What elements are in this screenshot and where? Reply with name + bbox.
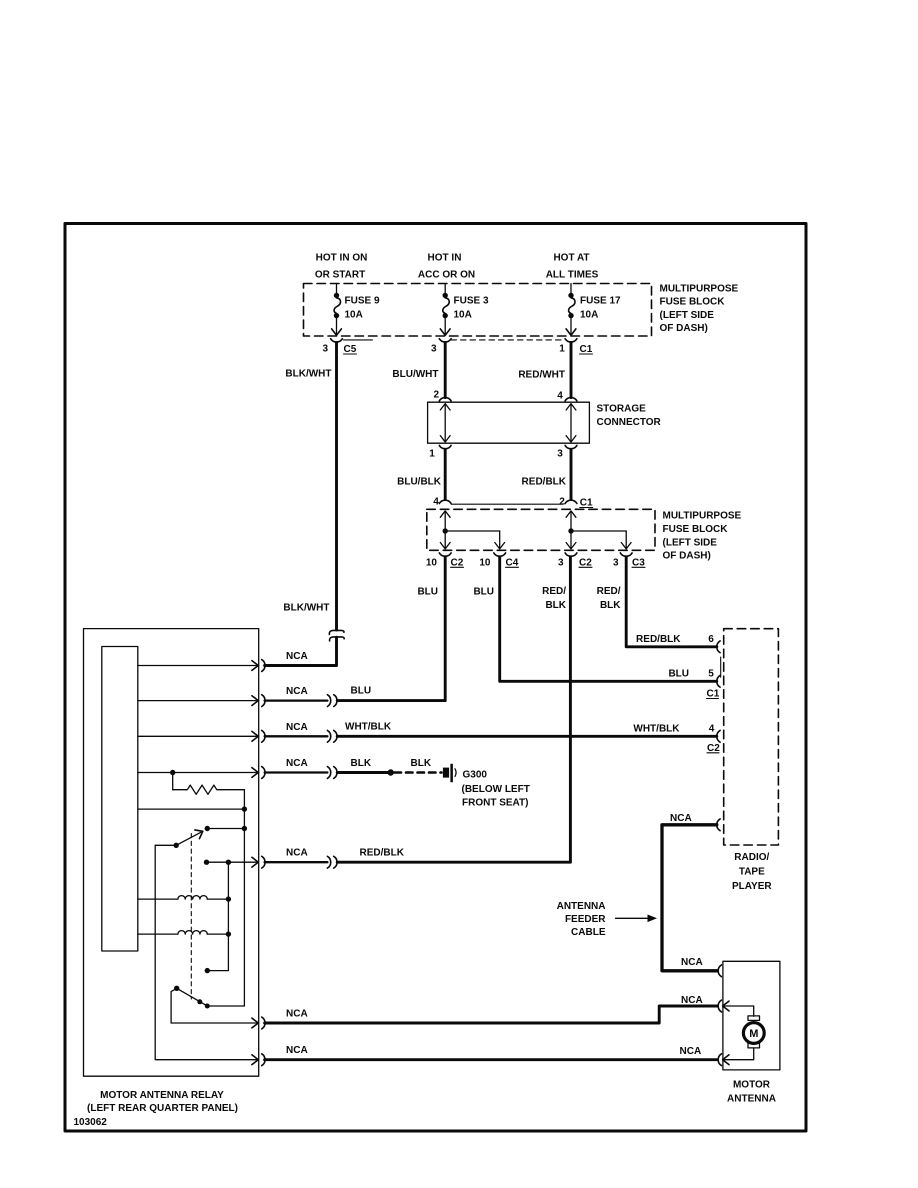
fuse F17 bbox=[566, 284, 576, 336]
svg-text:CABLE: CABLE bbox=[571, 927, 606, 938]
svg-text:CONNECTOR: CONNECTOR bbox=[597, 417, 662, 428]
svg-text:NCA: NCA bbox=[286, 848, 308, 859]
connector cup radio pin 6 bbox=[717, 641, 720, 653]
wire NCA stub row 3 bbox=[265, 735, 328, 737]
wire NCA row 7 to motor bbox=[265, 1058, 718, 1061]
svg-text:FUSE 9: FUSE 9 bbox=[345, 296, 380, 307]
svg-text:BLU/WHT: BLU/WHT bbox=[392, 369, 438, 380]
svg-text:10A: 10A bbox=[345, 310, 363, 321]
svg-text:10A: 10A bbox=[580, 310, 598, 321]
svg-text:M: M bbox=[749, 1028, 758, 1040]
relay wire row 1 internal bbox=[138, 661, 258, 671]
svg-text:HOT AT: HOT AT bbox=[553, 253, 589, 264]
switch 2 pivot dot bbox=[174, 986, 179, 991]
svg-text:BLU: BLU bbox=[473, 587, 494, 598]
wire NCA stub row 5 bbox=[265, 861, 328, 863]
ground G300 symbol bbox=[443, 764, 456, 782]
wire from row4 dot down to resistor bbox=[172, 773, 174, 790]
label RED/BLK wire 2 bbox=[597, 586, 622, 611]
svg-text:NCA: NCA bbox=[286, 1009, 308, 1020]
coil bus terminal dot bbox=[205, 968, 210, 973]
wire RED/WHT bbox=[570, 343, 573, 398]
wire BLK/WHT upper vertical bbox=[335, 343, 338, 631]
wire BLU from pin 10 C2 down to relay row bbox=[337, 557, 445, 700]
in-line connector row 3 bbox=[327, 730, 337, 742]
wire from relay block to resistor bus bbox=[138, 808, 245, 810]
svg-text:FRONT SEAT): FRONT SEAT) bbox=[462, 798, 528, 809]
connector cup storage pin 3 bbox=[565, 445, 577, 448]
wire BLU/WHT bbox=[444, 343, 447, 398]
dashed mechanical link bbox=[190, 834, 192, 1000]
svg-text:BLK: BLK bbox=[411, 758, 432, 769]
svg-text:RED/: RED/ bbox=[542, 586, 566, 597]
switch 2 arm bbox=[177, 988, 206, 1005]
svg-text:C5: C5 bbox=[344, 344, 357, 355]
label C1 bbox=[580, 344, 593, 355]
svg-text:MOTOR: MOTOR bbox=[733, 1080, 771, 1091]
svg-text:OF DASH): OF DASH) bbox=[663, 551, 711, 562]
svg-text:BLK: BLK bbox=[545, 600, 566, 611]
svg-text:4: 4 bbox=[557, 391, 563, 402]
svg-text:ALL TIMES: ALL TIMES bbox=[546, 270, 599, 281]
multipurpose fuse block 1 (dashed box) bbox=[304, 284, 652, 337]
connector face line between pin 4 and pin 2 bbox=[451, 503, 563, 505]
in-line connector row 2 bbox=[327, 695, 337, 707]
svg-text:TAPE: TAPE bbox=[739, 867, 765, 878]
connector cup pin 10 C2 bbox=[439, 553, 451, 556]
connector cup pin 3 C3 bbox=[620, 553, 632, 556]
stub line right of C5 cup bbox=[344, 339, 373, 341]
outer border frame bbox=[65, 224, 806, 1132]
svg-text:NCA: NCA bbox=[680, 1046, 702, 1057]
svg-text:BLK: BLK bbox=[351, 758, 372, 769]
svg-text:C1: C1 bbox=[707, 689, 720, 700]
svg-text:RED/BLK: RED/BLK bbox=[360, 848, 405, 859]
fuse block 2 internal bus BLU side bbox=[440, 511, 504, 549]
label C3 bbox=[632, 557, 645, 568]
wire resistor output down bus bbox=[243, 790, 245, 1006]
storage internal pass-through pin 2-1 bbox=[440, 404, 450, 442]
coil 1 output wire bbox=[207, 898, 228, 900]
svg-text:C2: C2 bbox=[707, 743, 720, 754]
connector cup relay row 4 bbox=[262, 767, 265, 779]
connector cup motor pin 3 bbox=[718, 1054, 721, 1066]
relay wire row 4 internal bbox=[138, 768, 258, 778]
connector cup radio pin 4 bbox=[717, 730, 720, 742]
wire BLK to ground junction bbox=[337, 771, 391, 774]
connector cup C5 under fuse 9 bbox=[331, 339, 343, 342]
junction dot row 5 coil bus bbox=[226, 860, 231, 865]
svg-text:3: 3 bbox=[613, 557, 619, 568]
in-line connector row 5 bbox=[327, 856, 337, 868]
svg-text:WHT/BLK: WHT/BLK bbox=[633, 724, 680, 735]
wire NCA row 1 to BLK/WHT vertical bbox=[265, 637, 337, 665]
svg-text:4: 4 bbox=[709, 724, 715, 735]
label C2 bbox=[451, 557, 464, 568]
svg-text:NCA: NCA bbox=[286, 1045, 308, 1056]
svg-text:RED/: RED/ bbox=[597, 586, 621, 597]
bracket between radio pins 6 and 5 bbox=[720, 657, 722, 677]
wire RED/BLK storage to fuse block bbox=[570, 450, 573, 499]
svg-text:MULTIPURPOSE: MULTIPURPOSE bbox=[660, 284, 739, 295]
svg-text:C4: C4 bbox=[506, 557, 519, 568]
connector cup storage pin 2 bbox=[439, 398, 451, 401]
label C1 (radio) bbox=[707, 689, 720, 700]
svg-text:BLK/WHT: BLK/WHT bbox=[283, 603, 329, 614]
label C1 (fuse block 2 top) bbox=[580, 498, 593, 509]
svg-text:G300: G300 bbox=[463, 770, 488, 781]
relay wire row 5 internal bbox=[207, 857, 259, 867]
motor M symbol bbox=[743, 1016, 764, 1048]
switch 2 contact wire to bus bbox=[207, 1005, 244, 1007]
fuse F9 bbox=[332, 284, 342, 336]
wire NCA row 6 to motor bbox=[265, 1006, 718, 1023]
connector cup storage pin 4 bbox=[565, 398, 577, 401]
junction dot resistor bus upper bbox=[242, 806, 247, 811]
svg-text:(LEFT SIDE: (LEFT SIDE bbox=[663, 538, 718, 549]
junction dot coil 2 bbox=[226, 931, 231, 936]
svg-text:FEEDER: FEEDER bbox=[565, 914, 606, 925]
relay coil 1 feed wire bbox=[138, 898, 178, 900]
antenna feeder cable wire bbox=[662, 825, 717, 971]
svg-text:RED/BLK: RED/BLK bbox=[522, 477, 567, 488]
relay coil 2 feed wire bbox=[138, 933, 178, 935]
label RED/BLK wire 1 bbox=[542, 586, 567, 611]
svg-text:PLAYER: PLAYER bbox=[732, 881, 772, 892]
svg-text:FUSE BLOCK: FUSE BLOCK bbox=[663, 524, 729, 535]
wire NCA stub row 2 bbox=[265, 699, 328, 701]
svg-text:BLU: BLU bbox=[668, 669, 689, 680]
resistor (relay coil resistor) bbox=[173, 785, 245, 794]
switch 2 arm dot a bbox=[197, 999, 202, 1004]
svg-text:NCA: NCA bbox=[286, 722, 308, 733]
svg-text:2: 2 bbox=[559, 497, 565, 508]
relay internal block rectangle bbox=[102, 647, 138, 952]
connector cup C1 under fuse 17 bbox=[565, 339, 577, 342]
svg-text:C2: C2 bbox=[579, 557, 592, 568]
radio/tape player box (dashed) bbox=[724, 629, 779, 845]
svg-text:STORAGE: STORAGE bbox=[597, 404, 647, 415]
svg-text:(LEFT SIDE: (LEFT SIDE bbox=[660, 310, 715, 321]
arrow into motor pin 3 bbox=[723, 1048, 754, 1065]
relay wire row 3 internal bbox=[138, 731, 258, 741]
relay wire row 2 internal bbox=[138, 696, 258, 706]
svg-text:ACC OR ON: ACC OR ON bbox=[418, 270, 475, 281]
connector cup radio pin 5 bbox=[717, 675, 720, 687]
wire switch 2 pivot down to NCA row 6 bbox=[171, 988, 258, 1028]
svg-text:BLK: BLK bbox=[600, 600, 621, 611]
wire RED/BLK from pin 3 C3 to radio pin 6 bbox=[626, 557, 717, 647]
svg-text:BLK/WHT: BLK/WHT bbox=[285, 369, 331, 380]
coil 2 output wire bbox=[207, 933, 228, 935]
coil bus vertical bbox=[207, 862, 228, 970]
svg-text:FUSE BLOCK: FUSE BLOCK bbox=[660, 297, 726, 308]
arrow antenna feeder cable bbox=[616, 915, 658, 923]
svg-text:103062: 103062 bbox=[74, 1117, 108, 1128]
connector cup radio NCA pin bbox=[717, 819, 720, 831]
svg-text:NCA: NCA bbox=[681, 995, 703, 1006]
wire left bus down to NCA row 7 bbox=[155, 845, 258, 1064]
connector cup storage pin 1 bbox=[439, 445, 451, 448]
storage connector box bbox=[428, 402, 590, 443]
relay common contact dot row 5 bbox=[204, 860, 209, 865]
connector cup fuse block 2 pin 2 bbox=[565, 500, 577, 503]
multipurpose fuse block 2 (dashed box) bbox=[427, 509, 655, 550]
wire NCA stub row 4 bbox=[265, 771, 328, 773]
svg-text:3: 3 bbox=[322, 344, 328, 355]
svg-text:C2: C2 bbox=[451, 557, 464, 568]
wire BLU from pin 10 C4 to radio pin 5 bbox=[500, 557, 717, 681]
dashed connector C1 face line bbox=[451, 339, 565, 341]
storage internal pass-through pin 4-3 bbox=[566, 404, 576, 442]
svg-text:NCA: NCA bbox=[286, 651, 308, 662]
dashed wire BLK to G300 bbox=[395, 771, 442, 774]
svg-text:10A: 10A bbox=[454, 310, 472, 321]
svg-text:10: 10 bbox=[479, 557, 491, 568]
svg-text:NCA: NCA bbox=[681, 957, 703, 968]
connector cup relay row 6 bbox=[262, 1017, 265, 1029]
svg-text:3: 3 bbox=[431, 344, 437, 355]
svg-text:3: 3 bbox=[557, 449, 563, 460]
wire WHT/BLK main run bbox=[337, 735, 717, 738]
svg-text:(LEFT REAR QUARTER PANEL): (LEFT REAR QUARTER PANEL) bbox=[87, 1103, 238, 1114]
junction dot row 4 bbox=[170, 770, 175, 775]
svg-text:ANTENNA: ANTENNA bbox=[727, 1094, 776, 1105]
motor antenna relay box bbox=[84, 629, 259, 1077]
svg-text:BLU: BLU bbox=[351, 686, 372, 697]
svg-text:HOT IN: HOT IN bbox=[428, 253, 462, 264]
relay coil 1 bbox=[178, 896, 207, 900]
svg-text:C3: C3 bbox=[632, 557, 645, 568]
svg-text:4: 4 bbox=[433, 497, 439, 508]
svg-text:MOTOR ANTENNA RELAY: MOTOR ANTENNA RELAY bbox=[100, 1090, 224, 1101]
svg-text:C1: C1 bbox=[580, 344, 593, 355]
connector cup relay row 3 bbox=[262, 730, 265, 742]
label C5 bbox=[344, 344, 357, 355]
wire switch 1 pivot to left bus bbox=[155, 844, 176, 846]
svg-text:BLU: BLU bbox=[417, 587, 438, 598]
svg-text:1: 1 bbox=[559, 344, 565, 355]
svg-text:RED/WHT: RED/WHT bbox=[518, 370, 565, 381]
svg-text:NCA: NCA bbox=[286, 686, 308, 697]
svg-text:MULTIPURPOSE: MULTIPURPOSE bbox=[663, 511, 742, 522]
wire RED/BLK from pin 3 C2 down to relay row bbox=[337, 557, 570, 862]
connector cup relay row 1 bbox=[262, 660, 265, 672]
switch 1 arm with arrow bbox=[176, 827, 205, 845]
connector cup pin 10 C4 bbox=[494, 553, 506, 556]
svg-text:3: 3 bbox=[558, 557, 564, 568]
svg-text:WHT/BLK: WHT/BLK bbox=[345, 722, 392, 733]
switch 1 contact dot bbox=[205, 826, 210, 831]
arrow into motor pin 2 bbox=[723, 1001, 754, 1016]
connector cup fuse block 2 pin 4 bbox=[439, 500, 451, 503]
svg-text:HOT IN ON: HOT IN ON bbox=[316, 253, 368, 264]
wire BLU/BLK bbox=[444, 450, 447, 499]
svg-text:NCA: NCA bbox=[286, 758, 308, 769]
svg-text:NCA: NCA bbox=[670, 813, 692, 824]
svg-text:OR START: OR START bbox=[315, 270, 365, 281]
junction dot coil 1 bbox=[226, 896, 231, 901]
svg-text:C1: C1 bbox=[580, 498, 593, 509]
connector cup under fuse 3 bbox=[439, 339, 451, 342]
fuse F3 bbox=[440, 284, 450, 336]
svg-text:6: 6 bbox=[708, 634, 714, 645]
switch 1 pivot dot bbox=[174, 843, 179, 848]
svg-text:FUSE 17: FUSE 17 bbox=[580, 296, 621, 307]
svg-text:5: 5 bbox=[708, 669, 714, 680]
svg-text:ANTENNA: ANTENNA bbox=[557, 901, 606, 912]
relay coil 2 bbox=[178, 931, 207, 935]
in-line connector on BLK/WHT vertical bbox=[329, 630, 344, 641]
svg-text:BLU/BLK: BLU/BLK bbox=[397, 477, 442, 488]
switch 1 contact wire bbox=[207, 828, 244, 830]
switch 2 arm dot b bbox=[205, 1004, 210, 1009]
svg-text:(BELOW LEFT: (BELOW LEFT bbox=[462, 784, 530, 795]
svg-text:1: 1 bbox=[429, 449, 435, 460]
connector cup relay row 5 bbox=[262, 856, 265, 868]
svg-text:RED/BLK: RED/BLK bbox=[636, 634, 681, 645]
svg-text:FUSE 3: FUSE 3 bbox=[454, 296, 489, 307]
connector cup relay row 7 bbox=[262, 1054, 265, 1066]
connector cup motor pin 1 bbox=[718, 965, 721, 977]
svg-text:RADIO/: RADIO/ bbox=[734, 852, 769, 863]
in-line connector row 4 bbox=[327, 767, 337, 779]
svg-text:2: 2 bbox=[433, 390, 439, 401]
fuse block 2 internal bus RED side bbox=[566, 511, 631, 549]
motor antenna box bbox=[723, 961, 780, 1070]
label C2 (radio) bbox=[707, 743, 720, 754]
connector cup pin 3 C2 bbox=[565, 553, 577, 556]
junction dot resistor bus at switch 1 bbox=[242, 826, 247, 831]
label C4 bbox=[506, 557, 519, 568]
label C2 bbox=[579, 557, 592, 568]
connector cup relay row 2 bbox=[262, 695, 265, 707]
connector cup motor pin 2 bbox=[718, 1000, 721, 1012]
svg-text:OF DASH): OF DASH) bbox=[660, 323, 708, 334]
svg-text:10: 10 bbox=[426, 557, 438, 568]
junction dot BLK wire bbox=[388, 769, 394, 775]
